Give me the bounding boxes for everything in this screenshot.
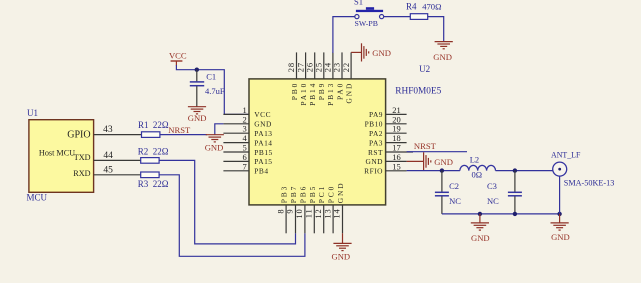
net label NRST (left) bbox=[168, 125, 191, 135]
wire VCC to U2 pin1 bbox=[176, 65, 249, 114]
junction at C3 top bbox=[513, 168, 517, 172]
svg-text:S1: S1 bbox=[354, 0, 363, 7]
resistor R3 bbox=[138, 172, 169, 189]
svg-text:45: 45 bbox=[103, 166, 113, 176]
svg-text:PB4: PB4 bbox=[254, 167, 268, 176]
svg-text:NC: NC bbox=[449, 196, 461, 206]
svg-text:22: 22 bbox=[341, 62, 351, 72]
svg-text:R4: R4 bbox=[406, 2, 417, 12]
capacitor C2 bbox=[435, 171, 461, 214]
svg-text:GPIO: GPIO bbox=[67, 129, 90, 140]
antenna connector ANT_LF bbox=[551, 151, 614, 188]
svg-text:22Ω: 22Ω bbox=[153, 120, 169, 130]
capacitor C1 bbox=[190, 70, 225, 107]
svg-text:PA13: PA13 bbox=[254, 129, 272, 138]
svg-text:R2: R2 bbox=[138, 147, 149, 157]
svg-text:GND: GND bbox=[336, 181, 345, 203]
svg-text:PB5: PB5 bbox=[308, 185, 317, 203]
svg-text:C2: C2 bbox=[449, 181, 459, 191]
inductor L2 bbox=[460, 155, 496, 180]
svg-text:U1: U1 bbox=[27, 108, 38, 118]
wire R4 to ground bbox=[428, 17, 444, 42]
switch S1 SW-PB bbox=[354, 0, 384, 28]
svg-text:SW-PB: SW-PB bbox=[355, 19, 378, 28]
svg-text:GND: GND bbox=[434, 157, 453, 167]
svg-text:SMA-50KE-13: SMA-50KE-13 bbox=[564, 179, 615, 188]
junction at C2 top bbox=[440, 168, 444, 172]
svg-text:PA3: PA3 bbox=[369, 138, 383, 147]
sideways ground at U2 top GND pin bbox=[351, 43, 391, 61]
svg-text:PC0: PC0 bbox=[327, 185, 336, 203]
svg-text:GND: GND bbox=[365, 157, 383, 166]
svg-text:NRST: NRST bbox=[414, 141, 437, 151]
svg-text:22Ω: 22Ω bbox=[153, 179, 169, 189]
U2 bottom pins 8-14 bbox=[275, 181, 345, 233]
svg-text:PA9: PA9 bbox=[369, 110, 383, 119]
svg-text:470Ω: 470Ω bbox=[422, 2, 441, 12]
ground at U2 pin2 bbox=[205, 135, 224, 153]
U2 left pins 1-7 bbox=[223, 105, 272, 176]
svg-text:GND: GND bbox=[372, 48, 391, 58]
svg-text:GND: GND bbox=[433, 52, 452, 62]
junction at C1 top bbox=[195, 68, 199, 72]
svg-text:GND: GND bbox=[188, 113, 207, 123]
svg-text:PB13: PB13 bbox=[326, 82, 335, 106]
wire RFIO net bbox=[407, 170, 553, 172]
ground below RF rail bbox=[471, 214, 490, 243]
junction at bottom rail gnd tap bbox=[478, 212, 482, 216]
svg-text:L2: L2 bbox=[470, 155, 479, 165]
svg-text:PB10: PB10 bbox=[365, 120, 383, 129]
U2 top pins 28-22 bbox=[286, 52, 353, 105]
svg-text:R1: R1 bbox=[138, 120, 149, 130]
svg-text:NRST: NRST bbox=[168, 125, 191, 135]
svg-text:4.7uF: 4.7uF bbox=[205, 86, 225, 96]
svg-text:GND: GND bbox=[344, 82, 353, 104]
sideways ground at U2 pin16 bbox=[407, 152, 453, 170]
svg-text:R3: R3 bbox=[138, 179, 149, 189]
svg-text:GND: GND bbox=[551, 232, 570, 242]
IC U2 RHF0M0E5 body bbox=[249, 64, 442, 205]
wire R2 to U2 pin9 bbox=[159, 160, 295, 244]
svg-text:43: 43 bbox=[103, 125, 113, 135]
resistor R2 bbox=[138, 147, 169, 164]
svg-text:PA0: PA0 bbox=[335, 82, 344, 100]
svg-text:ANT_LF: ANT_LF bbox=[551, 151, 581, 160]
svg-text:PB15: PB15 bbox=[254, 148, 272, 157]
svg-text:GND: GND bbox=[205, 143, 224, 153]
ground below C1 bbox=[188, 107, 207, 123]
junction at C3 bottom bbox=[513, 212, 517, 216]
svg-text:PA14: PA14 bbox=[254, 138, 272, 147]
svg-text:RHF0M0E5: RHF0M0E5 bbox=[395, 87, 441, 97]
svg-text:RFIO: RFIO bbox=[364, 167, 383, 176]
wire S1 to R4 bbox=[384, 16, 411, 18]
ground below R4 bbox=[433, 42, 453, 62]
svg-text:MCU: MCU bbox=[27, 193, 48, 203]
svg-text:PA10: PA10 bbox=[299, 82, 308, 106]
wire R3 to U2 pin10 bbox=[159, 175, 305, 256]
junction at antenna bottom bbox=[557, 212, 561, 216]
svg-text:RXD: RXD bbox=[73, 169, 90, 178]
MCU U1 box bbox=[27, 108, 94, 203]
U1 pin 44 TXD wire bbox=[94, 151, 141, 161]
capacitor C3 bbox=[487, 171, 522, 214]
svg-text:GND: GND bbox=[254, 120, 272, 129]
resistor R4 bbox=[406, 2, 441, 20]
svg-text:44: 44 bbox=[103, 151, 113, 161]
svg-text:C1: C1 bbox=[206, 71, 216, 81]
ground below U2 pin14 bbox=[331, 233, 351, 261]
power port VCC bbox=[169, 51, 187, 66]
svg-text:PB9: PB9 bbox=[317, 82, 326, 100]
svg-text:22Ω: 22Ω bbox=[153, 147, 169, 157]
svg-text:PA15: PA15 bbox=[254, 157, 272, 166]
svg-text:PC1: PC1 bbox=[317, 185, 326, 203]
wire antenna to bottom rail bbox=[559, 176, 561, 214]
svg-text:14: 14 bbox=[332, 209, 342, 219]
wire U2 pin2 to ground bbox=[215, 124, 224, 135]
ground below antenna bbox=[551, 214, 570, 242]
svg-text:C3: C3 bbox=[487, 181, 497, 191]
U2 right pins 21-15 bbox=[364, 105, 413, 176]
U1 pin 45 RXD wire bbox=[94, 166, 141, 176]
svg-text:PB6: PB6 bbox=[298, 185, 307, 203]
svg-text:15: 15 bbox=[392, 161, 401, 171]
wire S1 to U2 pin PB13 bbox=[333, 17, 355, 53]
svg-text:RST: RST bbox=[368, 148, 383, 157]
svg-text:PB7: PB7 bbox=[289, 185, 298, 203]
svg-text:0Ω: 0Ω bbox=[472, 169, 483, 179]
svg-text:Host MCU: Host MCU bbox=[39, 148, 75, 157]
svg-text:PA2: PA2 bbox=[369, 129, 383, 138]
svg-text:GND: GND bbox=[331, 252, 350, 262]
svg-text:U2: U2 bbox=[419, 64, 430, 74]
svg-text:GND: GND bbox=[471, 233, 490, 243]
svg-text:PB0: PB0 bbox=[290, 82, 299, 100]
wire RF bottom rail bbox=[442, 213, 560, 215]
resistor R1 bbox=[138, 120, 169, 137]
wire R1 to NRST bbox=[160, 134, 207, 136]
U1 pin 43 GPIO wire bbox=[94, 125, 142, 135]
svg-text:VCC: VCC bbox=[169, 51, 187, 61]
net label NRST at U2 pin17 bbox=[407, 141, 467, 152]
svg-text:VCC: VCC bbox=[254, 110, 271, 119]
svg-text:NC: NC bbox=[487, 196, 499, 206]
svg-text:7: 7 bbox=[243, 161, 247, 171]
svg-text:PB3: PB3 bbox=[280, 185, 289, 203]
svg-text:TXD: TXD bbox=[74, 153, 91, 162]
svg-text:PB14: PB14 bbox=[308, 82, 317, 106]
